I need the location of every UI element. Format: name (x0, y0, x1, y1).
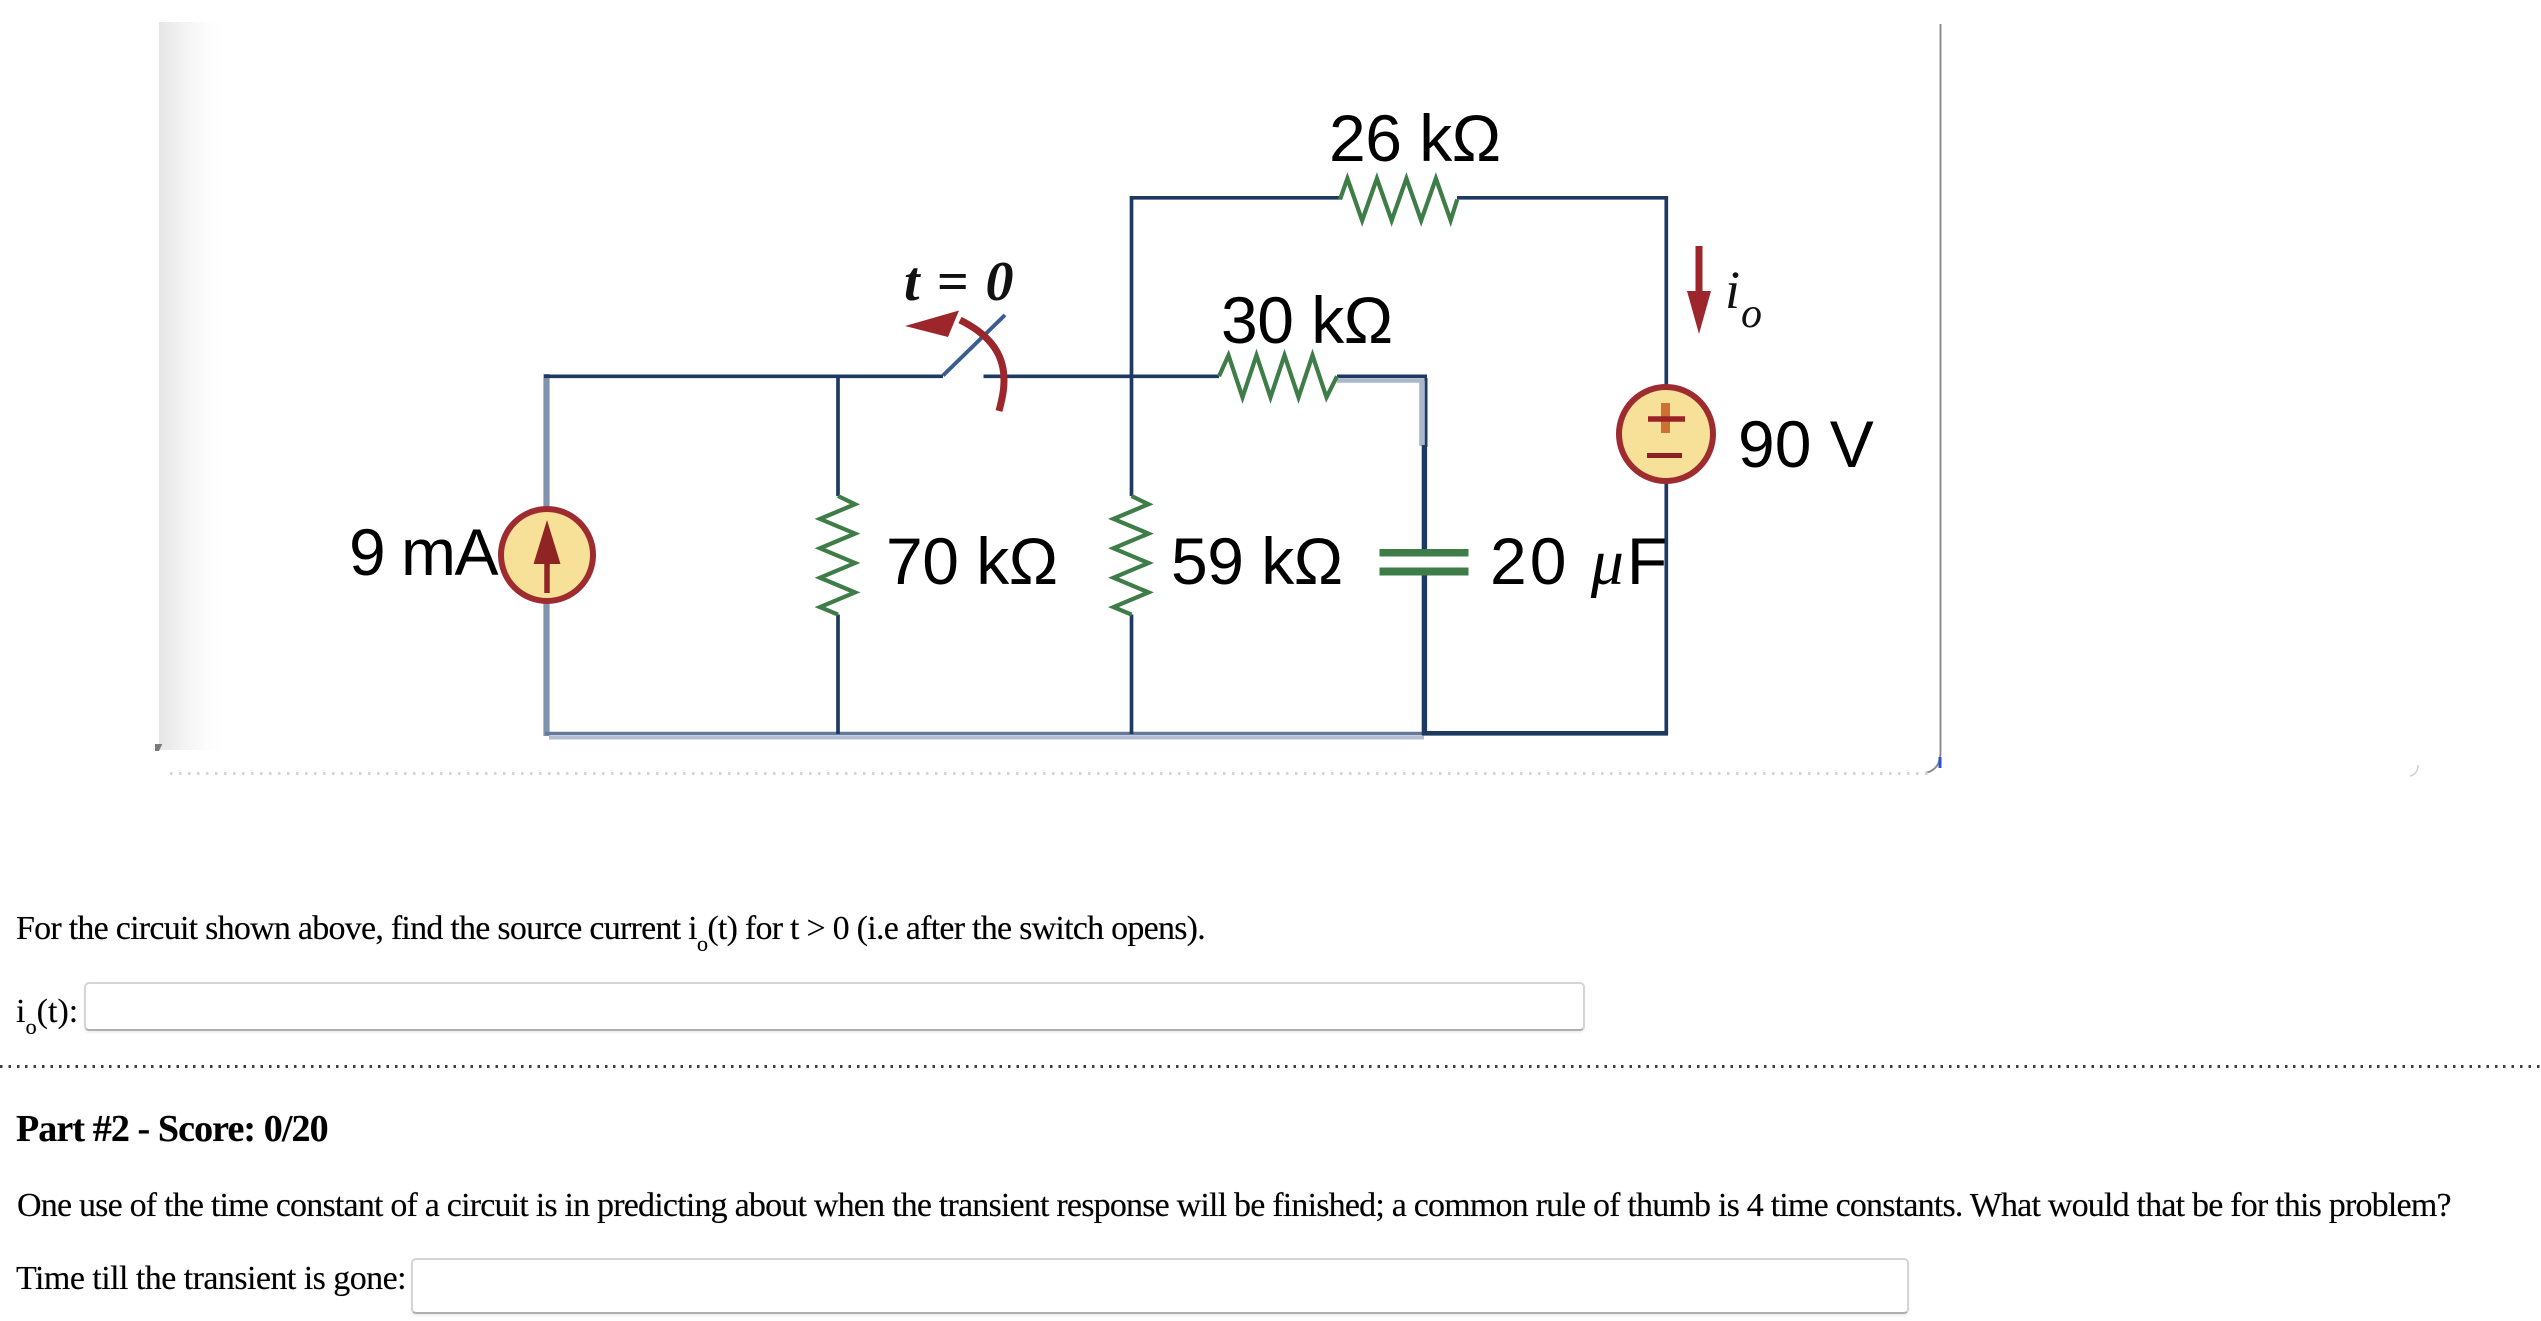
svg-text:70 kΩ: 70 kΩ (886, 524, 1058, 598)
svg-text:20 μF: 20 μF (1490, 524, 1670, 599)
svg-text:26 kΩ: 26 kΩ (1329, 101, 1501, 175)
svg-text:90 V: 90 V (1738, 407, 1874, 481)
svg-text:30 kΩ: 30 kΩ (1221, 283, 1393, 357)
svg-text:t = 0: t = 0 (904, 251, 1015, 313)
svg-text:9 mA: 9 mA (349, 515, 499, 589)
svg-text:io: io (1725, 260, 1762, 337)
svg-text:59 kΩ: 59 kΩ (1171, 524, 1343, 598)
